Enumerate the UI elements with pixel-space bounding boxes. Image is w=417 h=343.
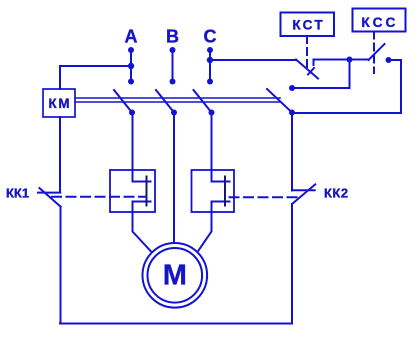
thermal relay heater box KK1 xyxy=(110,170,155,212)
contactor coil KM xyxy=(43,89,75,117)
wire: heater 1 to motor xyxy=(133,202,152,253)
thermal relay heater box KK2 xyxy=(192,170,235,212)
wire: pole A to heater 1 xyxy=(132,113,134,182)
wire: KCC right terminal around to aux bottom xyxy=(292,60,401,113)
KK1 heater element xyxy=(133,177,151,206)
node C junction xyxy=(207,57,213,63)
node: KCC right terminal xyxy=(386,57,392,63)
KM auxiliary contact blade xyxy=(267,89,292,113)
svg-text:М: М xyxy=(163,260,187,292)
wire: phase B to motor xyxy=(173,113,175,244)
svg-text:КСС: КСС xyxy=(361,15,398,30)
KCC actuator dashed xyxy=(373,32,375,74)
wire: phase A to KM coil top xyxy=(60,66,131,89)
thermal contact KK2 (NC) xyxy=(292,184,315,204)
wire: pole C to heater 2 xyxy=(211,113,213,182)
svg-text:КСТ: КСТ xyxy=(292,18,325,33)
start contact KCC (NO) blade xyxy=(369,44,385,60)
dashed link KK1 to heater 1 xyxy=(52,196,147,198)
svg-text:КК1: КК1 xyxy=(6,186,29,201)
wire: heater 2 to motor xyxy=(199,202,212,251)
mechanical linkage double line xyxy=(75,98,280,102)
node: junction above aux contact xyxy=(347,57,353,63)
wire: aux bottom down to KK2 contact xyxy=(291,113,293,191)
bottom rail wire xyxy=(60,323,292,325)
KCT actuator dashed xyxy=(306,36,308,72)
phase terminal C xyxy=(207,47,213,85)
KM main contact pole B xyxy=(156,90,177,116)
stop contact KCT (NC) xyxy=(296,60,318,79)
wire: phase C to stop contact xyxy=(210,59,295,61)
KM main contact pole C xyxy=(194,90,215,116)
svg-text:А: А xyxy=(125,27,138,47)
node: aux contact bottom xyxy=(289,110,295,116)
svg-text:В: В xyxy=(166,27,179,47)
stop button KCT xyxy=(281,13,335,37)
svg-text:КМ: КМ xyxy=(49,96,72,111)
wire: junction down to aux contact top xyxy=(292,60,350,89)
phase terminal A xyxy=(128,47,134,85)
phase terminal B xyxy=(170,47,176,85)
node A junction xyxy=(128,63,134,69)
svg-text:КК2: КК2 xyxy=(324,186,349,201)
motor M xyxy=(143,243,208,308)
wire: KK2 to bottom rail xyxy=(291,204,293,324)
KM main contact pole A xyxy=(114,90,135,116)
node: aux contact top xyxy=(289,85,295,91)
start button KCC xyxy=(353,9,406,32)
thermal contact KK1 (NC) xyxy=(38,188,61,207)
wire: KM coil bottom to KK1 contact xyxy=(59,117,61,192)
svg-text:С: С xyxy=(204,27,217,47)
KK2 heater element xyxy=(212,177,230,206)
wire: KK1 to bottom rail xyxy=(60,207,62,324)
dashed link heater 2 to KK2 xyxy=(230,196,298,198)
wire: stop contact to start contact xyxy=(314,59,369,61)
